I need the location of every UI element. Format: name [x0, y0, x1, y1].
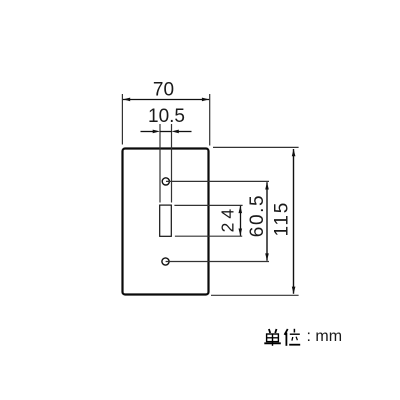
dim 24 arrow down — [239, 229, 243, 236]
dim 70 extension line left — [121, 94, 123, 145]
dim 115 arrow up — [292, 149, 296, 156]
dim 10.5 extension line right — [171, 124, 173, 203]
dim 115 arrow down — [292, 287, 296, 294]
svg-text:24: 24 — [218, 205, 238, 232]
dim 70 extension line right — [209, 94, 211, 146]
dim 24 extension line bottom — [175, 235, 242, 237]
dim 60.5 arrow up — [265, 182, 269, 189]
dim 70 arrow right — [202, 98, 209, 102]
svg-text:115: 115 — [272, 201, 293, 237]
switch opening — [160, 205, 172, 236]
plate outline — [123, 149, 209, 295]
dim 60.5 extension line top — [166, 180, 269, 182]
svg-text:60.5: 60.5 — [247, 194, 268, 237]
unit label kanji 位 (i) strokes — [285, 329, 301, 346]
dim 10.5 arrow right (points left) — [172, 130, 179, 134]
dim 115 extension line bottom — [211, 294, 299, 296]
dim 70 line — [123, 99, 209, 101]
dim 115 extension line top — [213, 146, 299, 148]
dim 115 line — [293, 149, 295, 294]
unit label kanji 単 (tan) strokes — [264, 329, 281, 346]
dim 10.5 arrow left (points right) — [153, 130, 160, 134]
svg-text:: mm: : mm — [307, 328, 343, 345]
screw hole bottom — [162, 258, 169, 265]
screw hole top — [162, 178, 169, 185]
dim 60.5 arrow down — [265, 253, 269, 260]
dim 10.5 extension line left — [159, 124, 161, 203]
svg-text:70: 70 — [153, 80, 174, 101]
dim 60.5 extension line bottom — [166, 261, 269, 263]
dim 24 extension line top — [174, 204, 242, 206]
dim 24 arrow up — [239, 206, 243, 213]
svg-text:10.5: 10.5 — [148, 106, 185, 127]
dim 10.5 right lead — [178, 131, 192, 133]
dim 24 line — [240, 206, 242, 236]
dim 60.5 line — [266, 182, 268, 261]
dim 10.5 left lead — [141, 131, 155, 133]
dim 10.5 middle segment — [160, 131, 172, 133]
dim 70 arrow left — [123, 98, 130, 102]
